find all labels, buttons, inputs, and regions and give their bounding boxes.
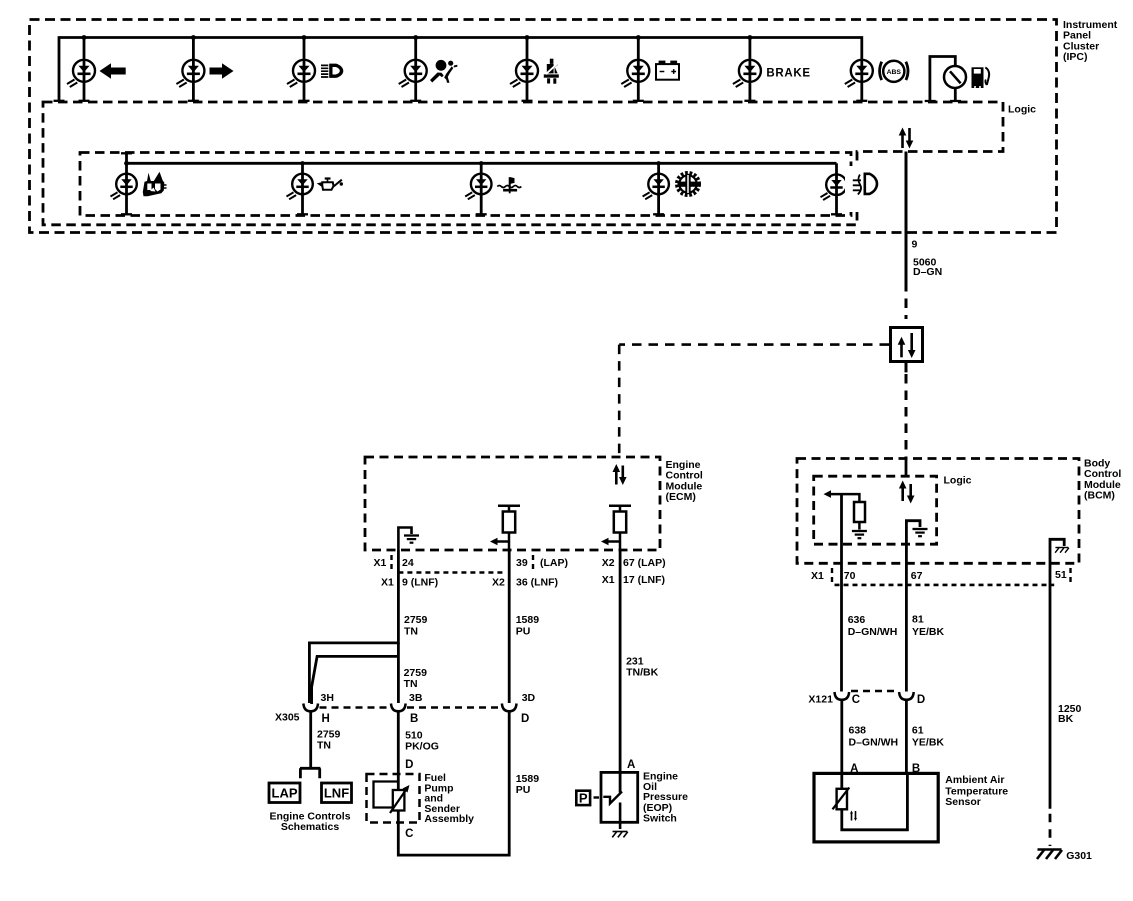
svg-text:B: B bbox=[912, 763, 920, 775]
svg-text:Switch: Switch bbox=[643, 813, 677, 825]
svg-text:638: 638 bbox=[849, 725, 867, 737]
svg-text:36 (LNF): 36 (LNF) bbox=[516, 577, 558, 589]
svg-text:TN: TN bbox=[317, 740, 331, 752]
svg-text:LNF: LNF bbox=[324, 786, 349, 801]
svg-text:17 (LNF): 17 (LNF) bbox=[623, 574, 665, 586]
svg-text:X1: X1 bbox=[811, 570, 824, 582]
svg-text:ABS: ABS bbox=[887, 69, 902, 76]
svg-text:2759: 2759 bbox=[404, 614, 428, 626]
svg-text:C: C bbox=[852, 694, 860, 706]
svg-text:YE/BK: YE/BK bbox=[912, 626, 945, 638]
svg-text:81: 81 bbox=[912, 614, 924, 626]
svg-text:TN: TN bbox=[404, 626, 418, 638]
svg-text:X1: X1 bbox=[381, 577, 394, 589]
svg-text:(ECM): (ECM) bbox=[666, 491, 696, 503]
svg-text:67 (LAP): 67 (LAP) bbox=[623, 557, 666, 569]
svg-text:H: H bbox=[322, 713, 330, 725]
svg-text:D–GN: D–GN bbox=[913, 266, 942, 278]
svg-text:BK: BK bbox=[1058, 713, 1074, 725]
svg-text:X305: X305 bbox=[275, 712, 300, 724]
svg-text:1589: 1589 bbox=[516, 614, 540, 626]
svg-text:LAP: LAP bbox=[272, 786, 298, 801]
svg-text:Sensor: Sensor bbox=[945, 796, 981, 808]
svg-text:X2: X2 bbox=[492, 577, 505, 589]
svg-text:61: 61 bbox=[912, 725, 924, 737]
svg-text:P: P bbox=[579, 791, 588, 806]
svg-text:D: D bbox=[917, 694, 925, 706]
svg-text:A: A bbox=[627, 759, 635, 771]
svg-text:(IPC): (IPC) bbox=[1063, 51, 1088, 63]
svg-text:D: D bbox=[405, 759, 413, 771]
svg-text:Assembly: Assembly bbox=[424, 813, 474, 825]
svg-text:67: 67 bbox=[911, 570, 923, 582]
svg-text:3B: 3B bbox=[409, 692, 423, 704]
svg-text:Ambient Air: Ambient Air bbox=[945, 774, 1004, 786]
svg-text:9 (LNF): 9 (LNF) bbox=[402, 577, 438, 589]
svg-text:D: D bbox=[521, 713, 529, 725]
svg-text:Logic: Logic bbox=[944, 475, 972, 487]
svg-text:PU: PU bbox=[516, 626, 531, 638]
svg-text:3D: 3D bbox=[522, 692, 536, 704]
svg-text:(BCM): (BCM) bbox=[1084, 490, 1115, 502]
svg-text:70: 70 bbox=[844, 570, 856, 582]
svg-text:D–GN/WH: D–GN/WH bbox=[848, 626, 898, 638]
svg-text:Schematics: Schematics bbox=[281, 821, 340, 833]
svg-text:BRAKE: BRAKE bbox=[766, 67, 810, 79]
svg-text:X1: X1 bbox=[374, 557, 387, 569]
svg-text:X121: X121 bbox=[808, 694, 833, 706]
svg-text:24: 24 bbox=[402, 557, 414, 569]
svg-text:PU: PU bbox=[516, 784, 531, 796]
svg-text:TN/BK: TN/BK bbox=[626, 667, 658, 679]
svg-text:YE/BK: YE/BK bbox=[912, 736, 945, 748]
svg-text:D–GN/WH: D–GN/WH bbox=[849, 736, 899, 748]
svg-text:B: B bbox=[410, 713, 418, 725]
svg-text:TN: TN bbox=[404, 678, 418, 690]
svg-text:9: 9 bbox=[912, 239, 918, 251]
svg-text:Logic: Logic bbox=[1008, 104, 1036, 116]
svg-text:(LAP): (LAP) bbox=[540, 557, 568, 569]
svg-text:3H: 3H bbox=[321, 692, 334, 704]
svg-text:PK/OG: PK/OG bbox=[405, 741, 439, 753]
svg-text:C: C bbox=[405, 828, 413, 840]
svg-text:636: 636 bbox=[848, 614, 866, 626]
svg-text:G301: G301 bbox=[1066, 850, 1092, 862]
svg-text:X2: X2 bbox=[602, 557, 615, 569]
svg-text:51: 51 bbox=[1055, 569, 1067, 581]
svg-text:A: A bbox=[850, 763, 858, 775]
svg-text:39: 39 bbox=[516, 557, 528, 569]
svg-text:X1: X1 bbox=[602, 574, 615, 586]
